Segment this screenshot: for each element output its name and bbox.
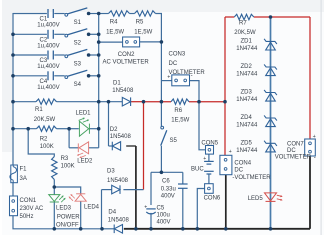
svg-text:1N4744: 1N4744 [236, 46, 258, 52]
wire top row to R4 [99, 13, 109, 15]
led LED1 [79, 121, 88, 136]
svg-text:100K: 100K [61, 164, 75, 170]
wire filter node [151, 171, 183, 173]
svg-text:LED5: LED5 [248, 196, 264, 202]
wire CON5 lead [199, 102, 206, 150]
connector CON4 [220, 155, 232, 174]
svg-text:C4: C4 [40, 79, 48, 85]
wire R1 row to D1 [99, 101, 123, 103]
wire bottom bus black [124, 228, 310, 230]
diode D1 [122, 97, 130, 106]
wire R3 to node [53, 180, 55, 195]
svg-text:DC: DC [234, 168, 243, 174]
wire C5 to bus [150, 213, 152, 229]
capacitor C6 [178, 183, 188, 185]
svg-text:CON7: CON7 [287, 142, 304, 148]
wire LED4 branch [54, 187, 80, 194]
battery BUC [204, 160, 214, 162]
svg-text:POWER: POWER [57, 214, 80, 220]
led LED3 [49, 195, 60, 202]
connector CON3 [172, 75, 190, 86]
svg-text:50Hz: 50Hz [20, 214, 34, 220]
svg-text:CON2: CON2 [118, 52, 135, 58]
capacitor C3 [47, 51, 49, 60]
wire CON2 left [99, 41, 123, 43]
connector CON2 [123, 37, 140, 47]
wire R4-R5 [130, 13, 135, 15]
junction [223, 100, 227, 104]
junction [87, 33, 91, 37]
junction [149, 227, 153, 231]
wire red vertical to C5 [143, 102, 145, 190]
svg-text:DC: DC [169, 61, 178, 67]
junction [181, 227, 185, 231]
svg-text:20K,5W: 20K,5W [234, 30, 256, 36]
wire C5 branch [150, 172, 152, 205]
wire C2 to S2 [54, 33, 64, 35]
junction [269, 15, 273, 19]
svg-text:R2: R2 [40, 137, 48, 143]
junction [53, 185, 57, 189]
wire S2 to bus [89, 33, 99, 35]
wire D2 to black drop [126, 145, 136, 147]
svg-text:-VOLTMETER: -VOLTMETER [232, 175, 271, 181]
svg-text:230V AC: 230V AC [20, 206, 44, 212]
svg-text:D1: D1 [113, 81, 121, 87]
svg-text:3A: 3A [20, 176, 27, 182]
switch S5 [161, 126, 164, 129]
wire C1 to S1 [54, 13, 64, 15]
resistor R1 [36, 99, 57, 104]
wire CON4 black drop [225, 175, 227, 229]
wire R2 branch [28, 129, 54, 157]
junction [97, 40, 101, 44]
wire S3 to bus [89, 54, 99, 56]
switch S3 [65, 55, 68, 58]
svg-text:R4: R4 [110, 20, 118, 26]
svg-text:R6: R6 [174, 108, 182, 114]
junction [97, 53, 101, 57]
svg-text:ZD4: ZD4 [241, 115, 253, 121]
wire R2 row [13, 128, 37, 130]
svg-text:S3: S3 [74, 61, 82, 67]
junction [142, 100, 146, 104]
svg-text:CON3: CON3 [169, 52, 186, 58]
svg-text:R7: R7 [239, 21, 247, 27]
zener ZD3 [264, 90, 277, 95]
wire LED1 leads [69, 128, 79, 130]
svg-text:-: - [191, 73, 193, 79]
wire D1 to node [131, 101, 144, 103]
resistor R6 [171, 99, 189, 104]
zener ZD5 [264, 141, 277, 146]
capacitor C2 [47, 30, 49, 39]
junction [107, 100, 111, 104]
resistor R4 [109, 11, 130, 16]
svg-text:LED4: LED4 [84, 205, 100, 211]
svg-text:D2: D2 [110, 127, 118, 133]
connector CON1 [10, 196, 18, 216]
junction [26, 127, 30, 131]
svg-text:1E,5W: 1E,5W [171, 118, 189, 124]
junction [97, 12, 101, 16]
wire C4 to S4 [54, 75, 64, 77]
svg-text:ZD5: ZD5 [241, 141, 253, 147]
connector CON6 [205, 184, 214, 194]
junction [87, 12, 91, 16]
switch S4 [65, 76, 68, 79]
svg-text:ON/OFF: ON/OFF [56, 222, 79, 228]
wire S4 to bus [89, 75, 99, 77]
svg-text:+: + [229, 149, 232, 155]
wire S1 to bus [89, 13, 99, 15]
capacitor C4 [47, 71, 49, 80]
wire left bus lower [12, 183, 14, 196]
junction [97, 33, 101, 37]
wire CON6 lead [197, 189, 204, 229]
junction [196, 227, 200, 231]
svg-text:+: + [167, 74, 170, 80]
wire R1 row [13, 101, 36, 103]
resistor R2 [37, 126, 57, 131]
wire S5 bottom [160, 146, 162, 173]
svg-text:100u: 100u [157, 212, 170, 218]
svg-text:S1: S1 [74, 20, 82, 26]
switch S2 [65, 34, 68, 37]
svg-text:+: + [203, 156, 206, 162]
svg-text:1N5408: 1N5408 [107, 178, 129, 184]
wire LED pair left [68, 129, 70, 148]
wire C4 row [13, 75, 47, 77]
junction [87, 74, 91, 78]
svg-text:1E,5W: 1E,5W [106, 29, 124, 35]
junction [11, 100, 15, 104]
resistor R3 [52, 157, 57, 180]
wire LED4 to bus [80, 201, 82, 228]
wire left bus [13, 14, 47, 166]
svg-text:S5: S5 [170, 138, 178, 144]
wire red CON4 feed [224, 102, 226, 156]
wire red rail up [224, 17, 226, 102]
svg-text:F1: F1 [20, 167, 28, 173]
svg-text:-: - [314, 155, 316, 161]
svg-text:DC: DC [287, 148, 296, 154]
wire S5 top [160, 102, 162, 127]
junction [11, 53, 15, 57]
wire C6 top lead [182, 172, 184, 184]
svg-text:VOLTMETER: VOLTMETER [275, 155, 312, 161]
svg-text:S4: S4 [74, 82, 82, 88]
svg-text:100K: 100K [40, 144, 54, 150]
svg-text:C2: C2 [40, 37, 48, 43]
svg-text:LED3: LED3 [56, 205, 72, 211]
svg-text:R5: R5 [136, 20, 144, 26]
svg-text:1N4744: 1N4744 [236, 148, 258, 154]
diode D3 [112, 185, 120, 194]
wire CON2 right [140, 41, 162, 43]
junction [160, 171, 164, 175]
svg-text:ZD1: ZD1 [241, 39, 253, 45]
wire LED pair right [89, 147, 99, 149]
junction [11, 74, 15, 78]
wire CON7 black drop [309, 156, 311, 229]
junction [97, 74, 101, 78]
connector CON7 [305, 139, 316, 156]
zener ZD2 [264, 64, 277, 69]
wire right bus [98, 14, 100, 129]
svg-text:20K,5W: 20K,5W [34, 117, 56, 123]
wire C6 bottom lead [182, 188, 184, 229]
svg-text:1N5408: 1N5408 [108, 218, 130, 224]
wire C2 row [13, 33, 47, 35]
svg-text:400V: 400V [157, 220, 171, 226]
wire CON5-BUC [208, 154, 210, 161]
junction [160, 100, 164, 104]
svg-text:1N4744: 1N4744 [236, 97, 258, 103]
svg-text:1u,400V: 1u,400V [37, 44, 59, 50]
svg-text:VOLTMETER: VOLTMETER [169, 70, 206, 76]
resistor R5 [135, 11, 156, 16]
wire CON3 right [190, 81, 200, 102]
junction [134, 227, 138, 231]
svg-text:1u,400V: 1u,400V [37, 85, 59, 91]
svg-text:S2: S2 [74, 41, 82, 47]
fuse F1 [11, 165, 18, 183]
junction [87, 53, 91, 57]
connector CON5 [206, 146, 214, 155]
junction [97, 127, 101, 131]
wire left bus to bottom [13, 216, 102, 229]
svg-text:CON6: CON6 [204, 196, 221, 202]
wire red rail top [225, 16, 234, 18]
wire node to R6 [144, 101, 172, 103]
svg-text:+: + [144, 204, 147, 210]
junction [197, 100, 201, 104]
svg-text:C1: C1 [40, 17, 48, 23]
junction [53, 227, 57, 231]
svg-text:CON1: CON1 [20, 198, 37, 204]
svg-text:R1: R1 [35, 107, 43, 113]
zener ZD4 [264, 115, 277, 120]
wire C3 row [13, 54, 47, 56]
wire black D2 vertical [135, 146, 137, 229]
resistor R7 [234, 14, 254, 19]
junction [224, 227, 228, 231]
capacitor C1 [47, 9, 49, 18]
svg-text:1N5408: 1N5408 [110, 134, 132, 140]
svg-text:C3: C3 [40, 58, 48, 64]
diode D2 [112, 142, 120, 151]
junction [79, 227, 83, 231]
junction [11, 33, 15, 37]
wire R5 to middle vertical [156, 14, 162, 102]
wire zener chain [270, 17, 272, 229]
wire BUC-CON6 [208, 174, 210, 184]
svg-text:1E,5W: 1E,5W [134, 29, 152, 35]
svg-text:C5: C5 [157, 206, 165, 212]
svg-text:1N4744: 1N4744 [236, 123, 258, 129]
svg-text:LED1: LED1 [76, 110, 92, 116]
svg-text:1u,400V: 1u,400V [37, 64, 59, 70]
junction [67, 127, 71, 131]
svg-text:C6: C6 [162, 178, 170, 184]
svg-text:1N4744: 1N4744 [236, 72, 258, 78]
junction [11, 127, 15, 131]
svg-text:BUC: BUC [191, 166, 204, 172]
diode D4 [114, 225, 122, 234]
led LED2 [79, 142, 89, 154]
svg-text:1N5408: 1N5408 [112, 88, 134, 94]
junction [97, 100, 101, 104]
svg-text:AC VOLTMETER: AC VOLTMETER [103, 59, 150, 65]
wire D3 drop [101, 190, 103, 229]
svg-text:CON5: CON5 [201, 140, 218, 146]
svg-text:ZD3: ZD3 [241, 90, 253, 96]
junction [269, 227, 273, 231]
svg-text:D3: D3 [107, 168, 115, 174]
svg-text:D4: D4 [108, 209, 116, 215]
wire CON3 left [161, 80, 171, 82]
svg-text:0.33u: 0.33u [161, 186, 176, 192]
svg-text:1u,400V: 1u,400V [37, 23, 59, 29]
svg-text:ZD2: ZD2 [241, 64, 253, 70]
junction [100, 227, 104, 231]
svg-text:R3: R3 [61, 156, 69, 162]
switch S1 [65, 13, 68, 16]
svg-text:+: + [313, 134, 316, 140]
wire D3 row [102, 189, 112, 191]
zener ZD1 [264, 39, 277, 44]
led LED4 [75, 194, 86, 201]
svg-text:400V: 400V [161, 194, 175, 200]
wire LED3 to bus [53, 202, 55, 229]
wire C3 to S3 [54, 54, 64, 56]
wire D1 anode branch [108, 102, 110, 146]
junction [160, 40, 164, 44]
svg-text:CON4: CON4 [234, 161, 251, 167]
svg-text:LED2: LED2 [77, 158, 93, 164]
wire red rail right [309, 17, 311, 139]
led LED5 [265, 193, 277, 201]
capacitor C5 [146, 208, 155, 210]
wire bottom bus blue [102, 228, 114, 230]
wire R6 to CON4 drop [189, 101, 225, 103]
